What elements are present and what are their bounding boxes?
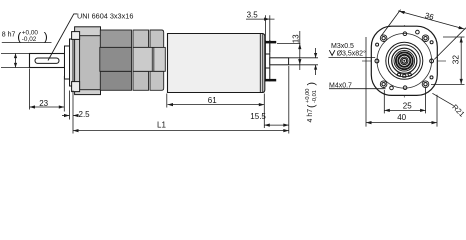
- leader UNI 6604: [48, 14, 77, 61]
- label 4 h7 (+0,00 -0,01) rotated: [305, 82, 318, 123]
- small hole lower right: [430, 76, 433, 79]
- flange outline: [371, 26, 437, 95]
- small hole upper right: [430, 41, 433, 44]
- dimension 8 h7: [1, 54, 29, 68]
- small hole bottom 2: [403, 86, 407, 90]
- countersunk hole BL: [380, 81, 387, 88]
- flange top tab: [72, 32, 80, 40]
- svg-text:25: 25: [403, 102, 412, 111]
- rear shaft: [270, 58, 289, 65]
- gearbox housing bottom band: [100, 71, 163, 90]
- gearbox ring middle band: [100, 47, 166, 71]
- svg-text:40: 40: [397, 113, 406, 122]
- dimension 13 (terminal): [277, 31, 300, 70]
- svg-text:61: 61: [208, 96, 217, 105]
- svg-text:+0,00: +0,00: [305, 89, 311, 103]
- motor end cap: [260, 34, 263, 93]
- svg-text:-0,02: -0,02: [22, 36, 37, 43]
- dimension L1 (overall): [73, 130, 289, 132]
- dimension 40 (bottom): [366, 37, 437, 127]
- output shaft (side view): [30, 54, 65, 68]
- svg-text:L1: L1: [157, 120, 166, 129]
- leader R21: [432, 93, 453, 105]
- dimension 2.5 (flange plate): [62, 91, 78, 134]
- svg-text:2.5: 2.5: [79, 110, 91, 119]
- keyway slot UNI 6604: [35, 58, 59, 63]
- small hole upper left: [376, 43, 379, 46]
- dimension 36 (diagonal): [382, 10, 466, 60]
- dimension 3.5 (rear boss): [246, 15, 275, 52]
- svg-text:23: 23: [39, 99, 48, 108]
- front hub: [80, 36, 101, 90]
- side hole left: [375, 59, 379, 63]
- dimension 23 (shaft length): [30, 69, 65, 112]
- svg-text:13: 13: [292, 34, 301, 43]
- carrier slots at boss bottom: [397, 73, 411, 77]
- small hole bottom 1: [390, 86, 394, 90]
- svg-text:): ): [44, 29, 48, 43]
- front bearing boss: [65, 46, 70, 79]
- countersunk hole TL: [380, 35, 387, 42]
- svg-text:15.5: 15.5: [250, 112, 266, 121]
- dimension 25 (bottom): [384, 88, 425, 113]
- svg-text:4 h7: 4 h7: [307, 109, 314, 123]
- svg-text:(: (: [17, 29, 21, 43]
- rear boss: [265, 40, 269, 81]
- gearbox housing top band: [100, 30, 163, 47]
- svg-text:32: 32: [451, 55, 461, 65]
- svg-text:(: (: [306, 104, 318, 108]
- countersunk hole BR: [422, 81, 429, 88]
- small hole top 1: [403, 32, 407, 36]
- boss rings: [386, 42, 423, 79]
- dimension 15.5 (rear shaft length): [264, 66, 289, 134]
- flange bottom tab: [72, 82, 80, 92]
- svg-text:8 h7: 8 h7: [2, 32, 16, 39]
- svg-text:-0,01: -0,01: [312, 90, 318, 103]
- small hole top 2: [416, 30, 420, 34]
- dimension 32 (right): [431, 37, 465, 84]
- terminal lower: [265, 79, 276, 82]
- svg-text:3.5: 3.5: [247, 10, 259, 19]
- svg-text:M3x0.5: M3x0.5: [331, 43, 354, 50]
- dimension 4 h7 rear shaft: [289, 48, 318, 75]
- countersunk hole TR: [422, 35, 429, 42]
- flange plate thin: [70, 39, 74, 86]
- centerlines: [362, 25, 447, 98]
- flange body: [75, 27, 101, 95]
- bolt circle: [377, 34, 432, 89]
- svg-text:): ): [306, 82, 318, 86]
- dimension 61 (motor length): [167, 94, 264, 129]
- terminal upper: [265, 41, 276, 44]
- side hole right: [430, 59, 434, 63]
- svg-text:UNI 6604 3x3x16: UNI 6604 3x3x16: [77, 11, 133, 20]
- motor body: [168, 34, 265, 93]
- svg-text:Ø3,5x82°: Ø3,5x82°: [337, 49, 366, 57]
